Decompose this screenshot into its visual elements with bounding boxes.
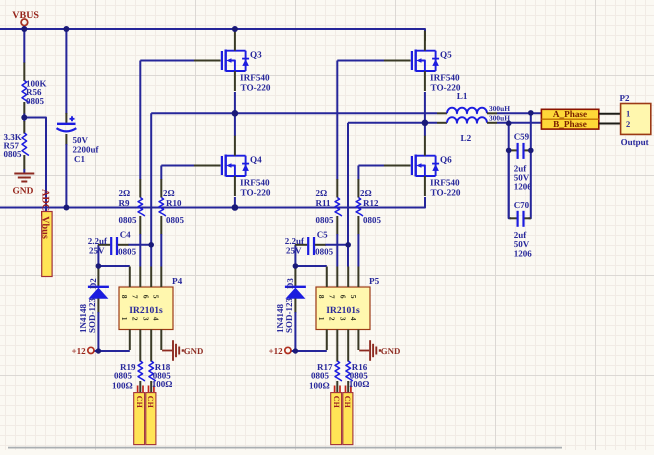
svg-text:P5: P5 bbox=[369, 276, 380, 286]
svg-text:7: 7 bbox=[131, 295, 140, 299]
svg-text:1206: 1206 bbox=[514, 182, 533, 192]
svg-text:TO-220: TO-220 bbox=[241, 188, 271, 198]
svg-text:C1: C1 bbox=[74, 154, 85, 164]
svg-text:IRF540: IRF540 bbox=[240, 73, 270, 83]
svg-text:C70: C70 bbox=[514, 200, 530, 210]
svg-text:GND: GND bbox=[381, 346, 401, 356]
svg-text:ADC_Vbus: ADC_Vbus bbox=[40, 189, 51, 239]
svg-text:0805: 0805 bbox=[166, 215, 185, 225]
svg-text:1206: 1206 bbox=[514, 249, 533, 259]
svg-text:5: 5 bbox=[349, 295, 358, 299]
svg-text:6: 6 bbox=[339, 295, 348, 299]
svg-text:D2: D2 bbox=[88, 278, 98, 289]
svg-text:C5: C5 bbox=[317, 230, 328, 240]
svg-text:Q3: Q3 bbox=[250, 50, 262, 60]
svg-text:+12: +12 bbox=[72, 346, 87, 356]
svg-text:IR2101s: IR2101s bbox=[326, 305, 360, 316]
svg-text:2: 2 bbox=[328, 317, 337, 321]
svg-text:300uH: 300uH bbox=[489, 114, 510, 123]
svg-text:6: 6 bbox=[142, 295, 151, 299]
svg-text:P2: P2 bbox=[620, 93, 630, 103]
svg-text:1: 1 bbox=[120, 317, 129, 321]
svg-text:1: 1 bbox=[317, 317, 326, 321]
svg-text:0805: 0805 bbox=[119, 215, 138, 225]
svg-text:B_Phase: B_Phase bbox=[553, 119, 587, 129]
svg-text:8: 8 bbox=[120, 295, 129, 299]
svg-text:3: 3 bbox=[339, 317, 348, 321]
svg-text:50V: 50V bbox=[73, 135, 89, 145]
svg-text:1: 1 bbox=[626, 109, 630, 119]
svg-text:R11: R11 bbox=[316, 198, 332, 208]
svg-text:4: 4 bbox=[152, 317, 161, 321]
svg-text:P4: P4 bbox=[172, 276, 183, 286]
svg-text:8: 8 bbox=[317, 295, 326, 299]
svg-text:IR2101s: IR2101s bbox=[129, 305, 163, 316]
svg-text:Q6: Q6 bbox=[440, 155, 452, 165]
svg-text:Output: Output bbox=[621, 137, 649, 147]
svg-text:0805: 0805 bbox=[311, 371, 330, 381]
svg-text:5: 5 bbox=[152, 295, 161, 299]
svg-text:100Ω: 100Ω bbox=[112, 381, 133, 391]
svg-text:Q4: Q4 bbox=[250, 155, 262, 165]
svg-text:2Ω: 2Ω bbox=[119, 188, 131, 198]
svg-text:0805: 0805 bbox=[26, 96, 45, 106]
svg-text:0805: 0805 bbox=[4, 149, 23, 159]
svg-text:4: 4 bbox=[349, 317, 358, 321]
svg-text:2Ω: 2Ω bbox=[163, 188, 175, 198]
svg-text:100Ω: 100Ω bbox=[152, 379, 173, 389]
svg-text:D3: D3 bbox=[285, 278, 295, 289]
svg-text:0805: 0805 bbox=[315, 247, 334, 257]
svg-text:100Ω: 100Ω bbox=[349, 379, 370, 389]
svg-text:C59: C59 bbox=[514, 132, 530, 142]
svg-text:Q5: Q5 bbox=[440, 50, 452, 60]
svg-text:IRF540: IRF540 bbox=[430, 178, 460, 188]
svg-text:3: 3 bbox=[142, 317, 151, 321]
svg-text:CH: CH bbox=[332, 396, 341, 409]
svg-text:2Ω: 2Ω bbox=[360, 188, 372, 198]
svg-text:100Ω: 100Ω bbox=[309, 381, 330, 391]
svg-text:SOD-123: SOD-123 bbox=[284, 297, 294, 333]
svg-text:0805: 0805 bbox=[363, 215, 382, 225]
svg-text:0805: 0805 bbox=[118, 247, 137, 257]
svg-text:SOD-123: SOD-123 bbox=[87, 297, 97, 333]
svg-text:L1: L1 bbox=[457, 91, 468, 101]
svg-text:2: 2 bbox=[626, 119, 630, 129]
svg-text:TO-220: TO-220 bbox=[241, 83, 271, 93]
svg-text:300uH: 300uH bbox=[489, 104, 510, 113]
svg-text:CH: CH bbox=[343, 396, 352, 409]
svg-text:CH: CH bbox=[146, 396, 155, 409]
svg-text:IRF540: IRF540 bbox=[430, 73, 460, 83]
svg-text:TO-220: TO-220 bbox=[431, 188, 461, 198]
svg-text:GND: GND bbox=[13, 187, 34, 197]
svg-text:GND: GND bbox=[184, 346, 204, 356]
svg-text:VBUS: VBUS bbox=[12, 10, 39, 21]
svg-text:R9: R9 bbox=[119, 198, 130, 208]
svg-text:+12: +12 bbox=[269, 346, 284, 356]
svg-text:IRF540: IRF540 bbox=[240, 178, 270, 188]
svg-text:2: 2 bbox=[131, 317, 140, 321]
svg-text:0805: 0805 bbox=[316, 215, 335, 225]
svg-text:2200uf: 2200uf bbox=[73, 145, 100, 155]
svg-text:A_Phase: A_Phase bbox=[553, 109, 587, 119]
svg-text:50V: 50V bbox=[514, 239, 530, 249]
svg-text:2Ω: 2Ω bbox=[316, 188, 328, 198]
svg-text:0805: 0805 bbox=[114, 371, 133, 381]
svg-text:CH: CH bbox=[135, 396, 144, 409]
svg-text:25V: 25V bbox=[89, 245, 105, 255]
svg-text:7: 7 bbox=[328, 295, 337, 299]
svg-text:R10: R10 bbox=[166, 198, 182, 208]
svg-text:C4: C4 bbox=[120, 230, 131, 240]
svg-text:L2: L2 bbox=[461, 133, 472, 143]
svg-text:25V: 25V bbox=[286, 245, 302, 255]
svg-text:R12: R12 bbox=[363, 198, 379, 208]
